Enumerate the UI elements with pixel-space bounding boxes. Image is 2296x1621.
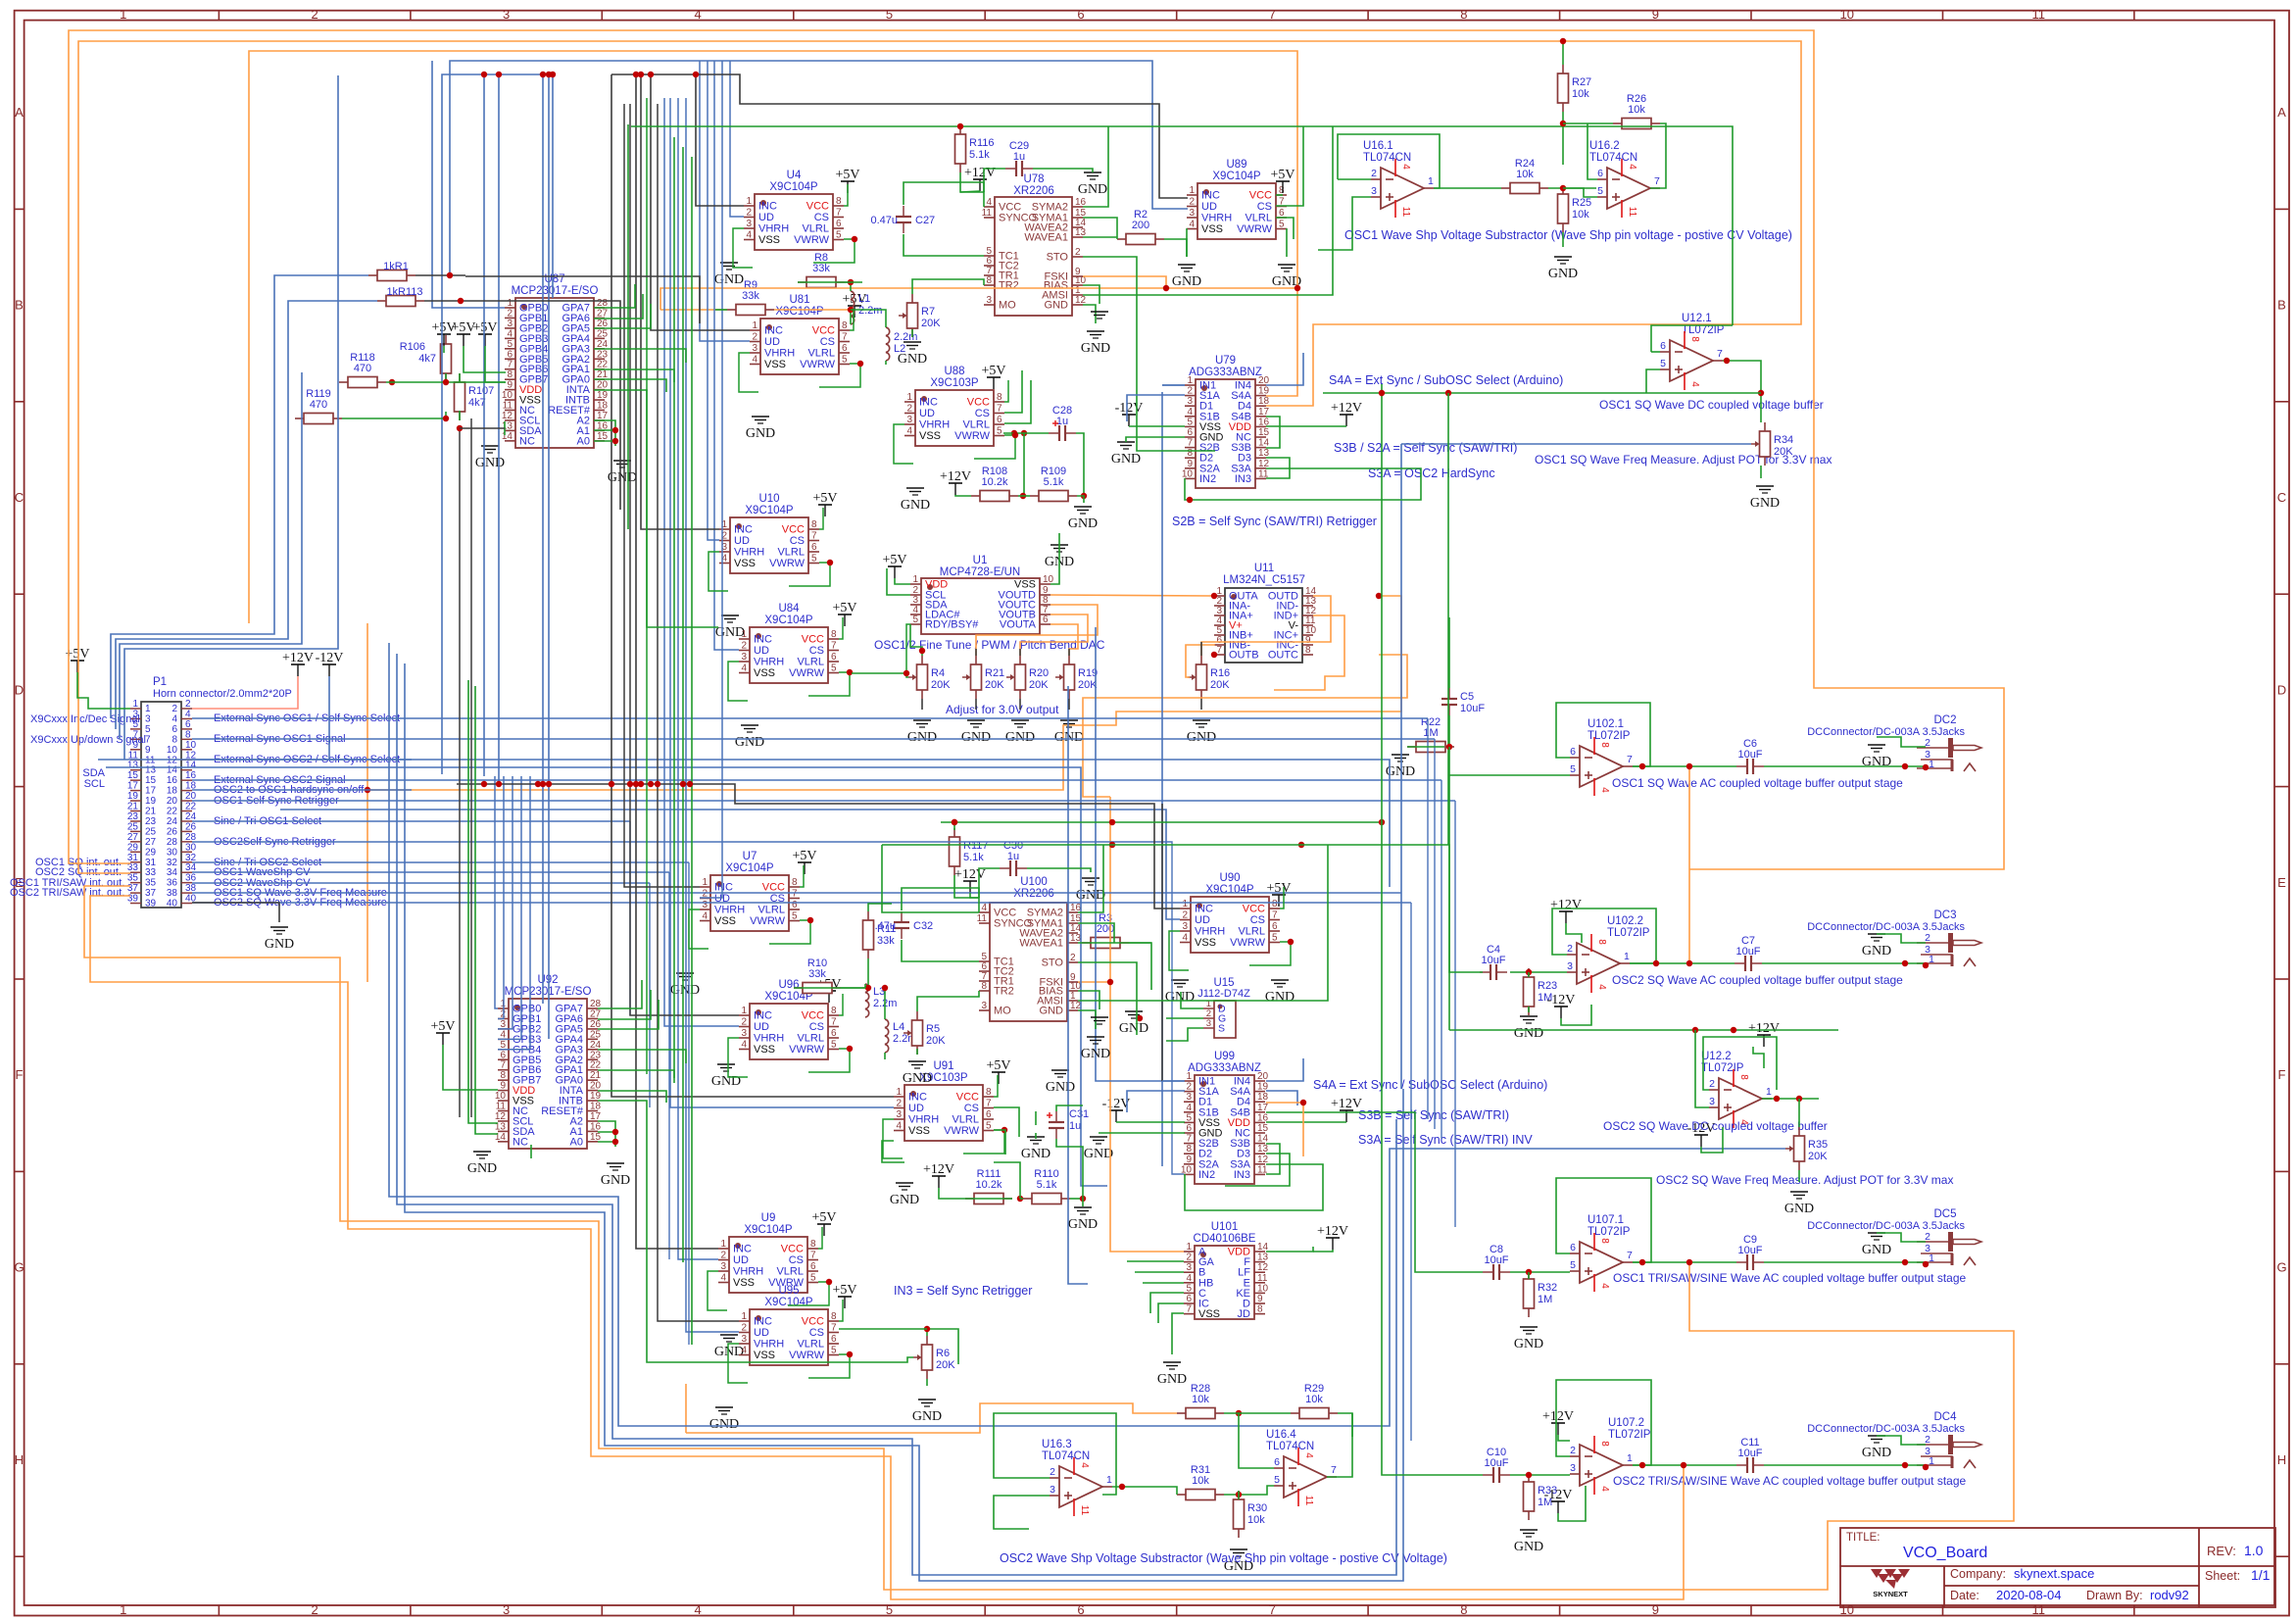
svg-text:GND: GND (1119, 1021, 1148, 1036)
svg-text:NC: NC (513, 1136, 528, 1148)
wire (1753, 1047, 1764, 1068)
wire (730, 61, 744, 217)
wire (708, 1271, 727, 1310)
junction (1012, 432, 1018, 438)
svg-text:UD: UD (1201, 201, 1217, 213)
svg-text:VHRH: VHRH (1201, 213, 1232, 224)
resistor R108 (971, 466, 1018, 502)
wire (594, 304, 651, 328)
svg-text:28: 28 (185, 832, 197, 843)
wire (630, 104, 739, 1015)
svg-text:18: 18 (167, 786, 178, 797)
wire (912, 279, 984, 294)
junction (540, 781, 546, 787)
ground (898, 342, 927, 367)
ground (1076, 878, 1105, 903)
wire (939, 1188, 965, 1199)
svg-text:CD40106BE: CD40106BE (1194, 1233, 1256, 1245)
svg-text:MO: MO (994, 1006, 1011, 1017)
svg-text:2: 2 (741, 1323, 747, 1334)
wire (845, 281, 862, 283)
svg-text:OSC1 Wave Shp Voltage Substrac: OSC1 Wave Shp Voltage Substractor (Wave … (1344, 228, 1792, 242)
wire (1266, 417, 1280, 448)
wire (470, 418, 472, 1117)
svg-text:9: 9 (1186, 1154, 1192, 1165)
svg-text:VCC: VCC (782, 524, 805, 536)
svg-text:3: 3 (1186, 1092, 1192, 1103)
svg-text:20: 20 (167, 796, 178, 807)
svg-text:VCC: VCC (967, 397, 990, 409)
svg-text:23: 23 (127, 811, 139, 822)
ground (1862, 934, 1891, 958)
svg-text:11: 11 (1079, 1505, 1090, 1516)
wire (1162, 1080, 1185, 1082)
junction (1653, 960, 1659, 966)
wire (90, 896, 1684, 1599)
svg-text:39: 39 (145, 899, 157, 909)
power -12V (1547, 993, 1576, 1018)
svg-text:Company:: Company: (1950, 1567, 2006, 1581)
ground (1750, 486, 1780, 511)
ground (735, 725, 764, 750)
svg-text:+5V: +5V (792, 849, 816, 863)
svg-text:U88: U88 (944, 366, 964, 377)
svg-text:24: 24 (597, 339, 609, 350)
wire (1650, 123, 1666, 188)
ground (901, 488, 930, 513)
wire (1633, 1464, 1736, 1466)
resistor R8 (798, 252, 845, 288)
wire (686, 1403, 1177, 1433)
wire (975, 699, 977, 710)
svg-text:33k: 33k (742, 290, 759, 302)
svg-text:+12V: +12V (1331, 401, 1362, 416)
svg-text:8: 8 (810, 1239, 816, 1250)
wire (1338, 134, 1440, 188)
svg-text:X9Cxxx Up/down Signal: X9Cxxx Up/down Signal (30, 734, 146, 746)
svg-text:1: 1 (896, 1087, 902, 1098)
svg-text:3: 3 (746, 219, 752, 229)
ground (1172, 265, 1201, 289)
svg-text:GND: GND (1046, 1080, 1075, 1095)
svg-text:8: 8 (836, 196, 842, 207)
svg-text:1: 1 (741, 1311, 747, 1322)
svg-text:8: 8 (1460, 7, 1467, 22)
junction (1298, 842, 1304, 848)
ground (608, 461, 637, 485)
svg-text:VSS: VSS (1198, 1308, 1220, 1320)
resistor R116 (955, 125, 995, 172)
svg-text:INC: INC (1201, 190, 1220, 202)
resistor R119 (295, 388, 342, 424)
wire (1200, 642, 1202, 656)
resistor R24 (1501, 158, 1548, 194)
svg-text:34: 34 (167, 867, 178, 878)
svg-text:+5V: +5V (812, 491, 837, 506)
svg-text:4: 4 (1599, 1283, 1610, 1289)
svg-text:1: 1 (741, 629, 747, 640)
svg-text:VSS: VSS (1195, 937, 1216, 949)
IC U78 XR2206 (982, 173, 1087, 316)
wire (1434, 187, 1501, 189)
svg-text:+12V: +12V (1550, 898, 1582, 912)
wire (769, 920, 810, 944)
svg-text:6: 6 (1186, 1294, 1192, 1304)
svg-text:1/1: 1/1 (2251, 1567, 2271, 1583)
svg-text:32: 32 (167, 858, 178, 868)
op-amp U16.3 TL074CN (1042, 1439, 1112, 1516)
svg-text:R116: R116 (969, 137, 994, 149)
svg-text:GND: GND (961, 730, 991, 745)
junction (1445, 390, 1451, 396)
svg-text:7: 7 (1269, 1602, 1276, 1617)
svg-text:U92: U92 (537, 974, 558, 986)
svg-text:5: 5 (1272, 933, 1278, 944)
svg-text:11: 11 (2031, 7, 2045, 22)
wire (664, 98, 739, 1026)
wire (1035, 1133, 1037, 1139)
svg-text:CS: CS (964, 1103, 979, 1114)
svg-text:2: 2 (741, 641, 747, 652)
wire (841, 987, 865, 989)
svg-text:MCP23017-E/SO: MCP23017-E/SO (512, 285, 599, 297)
svg-text:GND: GND (1862, 1243, 1891, 1257)
svg-text:UD: UD (919, 408, 935, 419)
resistor R29 (1291, 1383, 1338, 1419)
svg-text:R4: R4 (931, 667, 945, 679)
svg-text:REV:: REV: (2207, 1544, 2236, 1558)
svg-text:7: 7 (831, 641, 837, 652)
ground (1157, 1362, 1187, 1387)
svg-text:470: 470 (310, 399, 327, 411)
svg-text:DC4: DC4 (1933, 1411, 1957, 1423)
svg-text:X9C103P: X9C103P (930, 377, 979, 389)
resistor R107 (455, 373, 495, 420)
svg-text:+12V: +12V (282, 651, 314, 665)
svg-text:VWRW: VWRW (1230, 937, 1265, 949)
svg-text:VWRW: VWRW (769, 558, 805, 569)
svg-text:26: 26 (185, 821, 197, 832)
svg-text:3: 3 (1567, 960, 1573, 972)
wire (1588, 123, 1597, 179)
ground (475, 446, 505, 470)
svg-text:G: G (2276, 1260, 2286, 1275)
inductor (886, 327, 890, 361)
svg-text:U101: U101 (1211, 1221, 1239, 1233)
ground (1514, 1016, 1543, 1041)
svg-text:18: 18 (597, 401, 609, 412)
junction (1236, 1492, 1242, 1498)
wire (116, 301, 377, 729)
svg-text:6: 6 (1597, 168, 1603, 179)
svg-text:U10: U10 (758, 493, 779, 505)
junction (848, 307, 854, 313)
junction (1686, 960, 1692, 966)
svg-text:16: 16 (167, 775, 178, 786)
svg-text:VCO_Board: VCO_Board (1903, 1545, 1987, 1561)
junction (550, 72, 556, 77)
svg-text:+12V: +12V (954, 867, 986, 882)
svg-text:1.0: 1.0 (2244, 1543, 2264, 1558)
junction (1379, 819, 1385, 825)
op-amp U107.1 TL072IP (1570, 1214, 1633, 1292)
wire (498, 776, 504, 1018)
svg-text:5.1k: 5.1k (969, 149, 990, 161)
wire (629, 821, 631, 1015)
svg-text:OSC1 TRI/SAW/SINE Wave AC coup: OSC1 TRI/SAW/SINE Wave AC coupled voltag… (1613, 1271, 1967, 1285)
wire (594, 440, 615, 442)
wire (960, 191, 980, 192)
svg-text:VSS: VSS (1201, 223, 1223, 235)
svg-text:C32: C32 (913, 920, 933, 932)
junction (1686, 763, 1692, 769)
svg-text:S2B = Self Sync (SAW/TRI) Retr: S2B = Self Sync (SAW/TRI) Retrigger (1172, 515, 1377, 528)
wire (808, 1354, 850, 1378)
transistor U15 J112-D74Z (1197, 977, 1250, 1038)
wire (461, 301, 620, 510)
svg-text:19: 19 (597, 390, 609, 401)
wire (927, 1329, 958, 1364)
svg-text:2: 2 (1186, 1253, 1192, 1263)
svg-text:6: 6 (1077, 1602, 1084, 1617)
junction (847, 669, 853, 675)
svg-text:26: 26 (167, 826, 178, 837)
svg-text:6: 6 (1274, 1456, 1280, 1468)
svg-text:U87: U87 (544, 273, 564, 285)
svg-text:UD: UD (1195, 914, 1210, 926)
wire (366, 623, 368, 982)
svg-text:5: 5 (842, 355, 848, 366)
wire (974, 435, 1015, 459)
svg-text:GND: GND (1084, 1147, 1113, 1161)
wire (495, 776, 498, 1008)
svg-text:29: 29 (127, 842, 139, 853)
svg-text:21: 21 (590, 1070, 602, 1081)
svg-text:8: 8 (811, 519, 817, 530)
potentiometer R5 (904, 1011, 946, 1055)
ground (467, 1152, 497, 1176)
wire (1164, 239, 1187, 257)
wire (498, 776, 521, 1039)
wire (1018, 495, 1030, 497)
wire (1056, 1105, 1083, 1111)
junction (648, 781, 654, 787)
svg-text:3: 3 (720, 1261, 726, 1272)
wire (78, 41, 1801, 873)
svg-text:7: 7 (507, 360, 513, 370)
svg-text:C31: C31 (1069, 1108, 1089, 1120)
wire (1266, 1112, 1483, 1272)
svg-text:GND: GND (1750, 496, 1780, 511)
junction (847, 1046, 853, 1052)
ground (265, 927, 294, 952)
svg-text:6: 6 (500, 1050, 506, 1060)
svg-text:F: F (2278, 1067, 2286, 1082)
svg-text:VCC: VCC (956, 1092, 979, 1104)
wire (594, 379, 666, 392)
svg-text:4: 4 (720, 1273, 726, 1284)
svg-text:10k: 10k (1247, 1514, 1265, 1526)
wire (895, 578, 910, 584)
wire (1201, 596, 1331, 656)
wire (904, 234, 984, 256)
svg-text:8: 8 (842, 320, 848, 331)
power -12V (1102, 1097, 1131, 1122)
svg-text:8: 8 (507, 369, 513, 380)
wire (941, 821, 1382, 823)
svg-text:VLRL: VLRL (1238, 926, 1265, 938)
wire (1410, 903, 1412, 1441)
junction (535, 781, 541, 787)
svg-text:GND: GND (1172, 274, 1201, 289)
svg-text:25: 25 (145, 826, 157, 837)
svg-text:XR2206: XR2206 (1013, 185, 1054, 197)
svg-text:3: 3 (906, 415, 912, 425)
svg-text:1: 1 (120, 1602, 126, 1617)
svg-text:7: 7 (842, 332, 848, 343)
svg-text:VWRW: VWRW (789, 1044, 824, 1056)
svg-text:R27: R27 (1572, 76, 1591, 88)
svg-text:GND: GND (735, 735, 764, 750)
svg-text:4: 4 (1189, 220, 1195, 230)
wire (696, 74, 744, 206)
svg-text:GND: GND (1111, 452, 1141, 467)
wire (598, 1131, 615, 1133)
svg-text:GND: GND (265, 937, 294, 952)
wire (1563, 188, 1597, 197)
svg-text:5: 5 (831, 663, 837, 674)
svg-text:1: 1 (145, 704, 151, 714)
svg-text:8: 8 (1596, 939, 1607, 945)
ground (714, 1335, 744, 1359)
svg-text:6: 6 (810, 1261, 816, 1272)
IC U10 X9C104P (719, 493, 819, 573)
svg-text:VWRW: VWRW (789, 1350, 824, 1361)
svg-text:U16.3: U16.3 (1042, 1439, 1072, 1450)
wire (611, 74, 1188, 198)
ground (1784, 1192, 1814, 1216)
capacitor C11 (1736, 1437, 1764, 1473)
svg-text:10k: 10k (1628, 104, 1645, 116)
junction (1639, 1462, 1645, 1468)
svg-text:25: 25 (127, 821, 139, 832)
svg-text:GND: GND (1045, 300, 1069, 312)
svg-text:OSC2 TRI/SAW int. out.: OSC2 TRI/SAW int. out. (10, 887, 124, 899)
junction (638, 72, 644, 77)
svg-text:VHRH: VHRH (764, 348, 795, 360)
wire (714, 61, 739, 650)
svg-text:7: 7 (831, 1017, 837, 1028)
wire (1877, 1436, 1926, 1445)
svg-text:2: 2 (1070, 953, 1076, 963)
wire (192, 717, 1428, 719)
wire (1027, 868, 1091, 872)
power +12V (282, 651, 314, 676)
wire (468, 680, 498, 1123)
wire (192, 759, 412, 761)
svg-text:3: 3 (981, 1001, 987, 1011)
wire (660, 309, 727, 311)
svg-text:14: 14 (502, 431, 513, 442)
wire (864, 984, 866, 988)
wire (464, 346, 506, 372)
svg-text:CS: CS (975, 408, 990, 419)
wire (954, 875, 979, 912)
svg-text:8: 8 (1599, 742, 1610, 748)
wire (405, 663, 1403, 1581)
svg-text:2: 2 (1050, 1466, 1055, 1478)
wire (1327, 1413, 1352, 1477)
junction (633, 72, 639, 77)
wire (1510, 1474, 1570, 1476)
svg-text:0.47u: 0.47u (870, 215, 898, 226)
ground (907, 720, 937, 745)
ground (1514, 1327, 1543, 1351)
resistor R23 (1524, 968, 1558, 1015)
wire (818, 1227, 822, 1249)
wire (1083, 655, 1407, 797)
svg-text:20K: 20K (921, 318, 941, 329)
svg-text:28: 28 (167, 837, 178, 848)
svg-text:U12.2: U12.2 (1701, 1051, 1732, 1062)
svg-text:7: 7 (500, 1060, 506, 1071)
wire (432, 61, 505, 308)
svg-text:2: 2 (746, 208, 752, 219)
wire (1166, 1028, 1203, 1041)
svg-text:2: 2 (1709, 1078, 1715, 1090)
svg-text:14: 14 (1257, 1134, 1269, 1145)
svg-text:D: D (15, 682, 24, 697)
svg-text:+5V: +5V (1266, 881, 1291, 896)
wire (424, 300, 461, 302)
svg-text:TL074CN: TL074CN (1042, 1450, 1090, 1462)
svg-text:11: 11 (977, 913, 988, 924)
svg-text:11: 11 (1400, 207, 1411, 218)
svg-text:2: 2 (1371, 168, 1377, 179)
junction (952, 819, 957, 825)
wire (868, 904, 892, 911)
svg-text:CS: CS (809, 645, 824, 657)
svg-text:GND: GND (1514, 1540, 1543, 1554)
svg-text:7: 7 (1627, 1250, 1633, 1261)
svg-text:11: 11 (503, 401, 513, 412)
svg-text:5: 5 (836, 230, 842, 241)
svg-text:ADG333ABNZ: ADG333ABNZ (1189, 367, 1262, 378)
wire (1448, 715, 1450, 747)
svg-text:+12V: +12V (940, 469, 971, 484)
svg-text:5: 5 (811, 554, 817, 565)
wire (1161, 804, 1163, 1081)
wire (1556, 1380, 1651, 1465)
svg-text:1: 1 (702, 877, 708, 888)
power -12V (1687, 1121, 1716, 1147)
junction (687, 781, 693, 787)
ground (1514, 1530, 1543, 1554)
wire (1762, 962, 1926, 964)
wire (658, 104, 739, 1321)
wire (1129, 942, 1151, 944)
svg-text:SCL: SCL (84, 778, 105, 790)
svg-text:11: 11 (1627, 207, 1637, 218)
junction (852, 236, 857, 242)
wire (1023, 433, 1025, 496)
junction (1681, 1462, 1686, 1468)
svg-text:-12V: -12V (1547, 993, 1576, 1007)
svg-text:13: 13 (127, 761, 139, 771)
wire (1077, 496, 1084, 503)
svg-text:GND: GND (746, 426, 775, 441)
wire (1701, 1127, 1723, 1153)
